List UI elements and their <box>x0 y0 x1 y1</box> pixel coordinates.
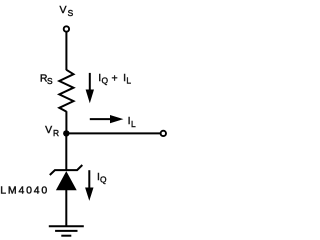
terminal VS <box>64 26 69 31</box>
wire node VR to zener cathode <box>65 133 67 170</box>
svg-text:Q: Q <box>102 76 109 86</box>
label IQ <box>97 171 107 184</box>
wire node VR to output terminal <box>66 132 160 134</box>
label IQ + IL <box>98 72 131 86</box>
svg-text:L: L <box>131 119 136 129</box>
svg-text:R: R <box>53 128 59 138</box>
current arrow IL <box>90 115 124 123</box>
current arrow IQ+IL <box>86 73 94 103</box>
svg-text:+: + <box>112 73 118 85</box>
label VR <box>45 124 59 138</box>
current arrow IQ <box>85 170 93 201</box>
output terminal <box>161 131 166 136</box>
node VR junction dot <box>63 130 69 136</box>
label RS <box>40 73 53 86</box>
zener diode D1 anode triangle <box>56 171 77 190</box>
svg-text:V: V <box>60 4 67 16</box>
svg-text:S: S <box>68 8 74 18</box>
svg-text:V: V <box>45 124 52 136</box>
ground <box>49 226 84 236</box>
resistor RS <box>59 70 73 112</box>
wire VS to resistor <box>65 32 67 70</box>
zener diode D1 cathode bar with bent ends <box>50 165 83 175</box>
wire resistor to node VR <box>65 111 67 134</box>
svg-text:L: L <box>126 76 131 86</box>
svg-text:S: S <box>47 76 53 86</box>
svg-text:Q: Q <box>100 174 107 184</box>
wire zener anode to ground <box>65 190 67 226</box>
svg-text:LM4040: LM4040 <box>0 184 49 196</box>
node VS label <box>60 4 74 18</box>
label IL <box>128 115 136 129</box>
